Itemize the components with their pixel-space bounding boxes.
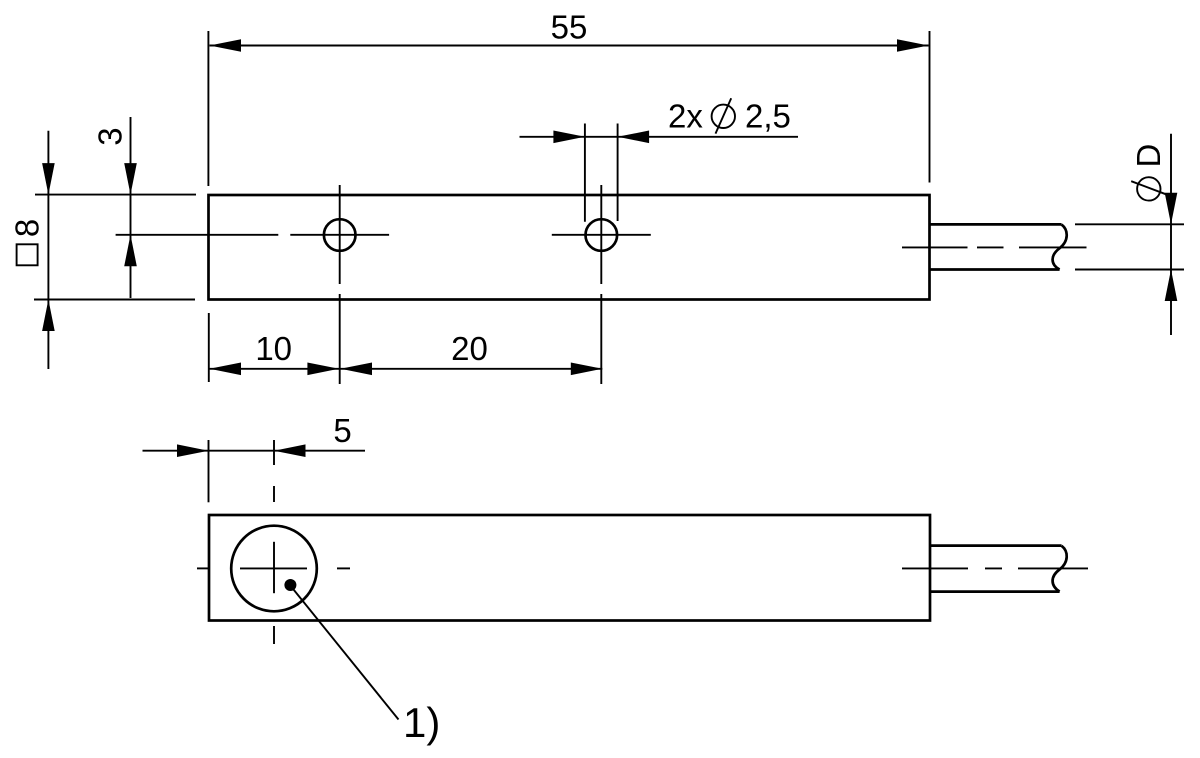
dimension 5: dimension line	[143, 450, 366, 452]
dimension 10/20: dimension line	[210, 368, 603, 370]
svg-text:20: 20	[451, 330, 488, 367]
sensor body (top view)	[209, 195, 930, 300]
dimension 55: extension lines	[208, 31, 929, 186]
hole 1 (top view)	[324, 219, 356, 251]
svg-text:1): 1)	[403, 699, 440, 746]
svg-text:2x: 2x	[668, 98, 703, 135]
sensing face circle (bottom view)	[231, 526, 317, 612]
bottom view vertical centerline	[273, 440, 275, 644]
dimension 55: dimension line	[210, 45, 929, 47]
leader dot 1)	[284, 579, 296, 591]
dimension 2x 2,5: dimension line	[520, 136, 799, 138]
svg-text:10: 10	[255, 330, 292, 367]
cable (bottom view)	[930, 546, 1067, 592]
dimension 2x 2,5: extension lines	[585, 124, 618, 222]
sensor body (bottom view)	[209, 515, 930, 621]
dimension square-8: dimension line and arrows	[47, 131, 49, 369]
svg-text:3: 3	[92, 127, 129, 145]
svg-text:5: 5	[333, 412, 351, 449]
dimension D: dimension line	[1170, 134, 1172, 335]
svg-text:55: 55	[551, 9, 588, 46]
hole 1 vertical centerline	[339, 185, 341, 384]
dimension D: diameter symbol	[1131, 177, 1166, 200]
hole axis centerline (horizontal, top view)	[116, 234, 651, 236]
svg-text:8: 8	[9, 219, 46, 237]
dimension 5: extension line	[208, 440, 210, 502]
cable centerline (top view)	[902, 246, 1087, 248]
svg-text:D: D	[1130, 144, 1167, 168]
svg-text:2,5: 2,5	[745, 98, 791, 135]
hole 2 vertical centerline	[600, 185, 602, 384]
hole 2 (top view)	[586, 219, 618, 251]
cable (top view)	[930, 224, 1067, 269]
dimension 3: dimension line and arrows	[130, 117, 132, 298]
leader line 1)	[294, 590, 399, 720]
dimension square-8: square symbol	[17, 244, 38, 265]
bottom view horizontal centerline	[197, 567, 350, 569]
dimension 10/20: extension line	[208, 313, 210, 382]
cable centerline (bottom view)	[902, 567, 1088, 569]
top/bottom edge extension lines (left of top view)	[34, 195, 196, 300]
dimension D: extension lines	[1075, 224, 1184, 269]
